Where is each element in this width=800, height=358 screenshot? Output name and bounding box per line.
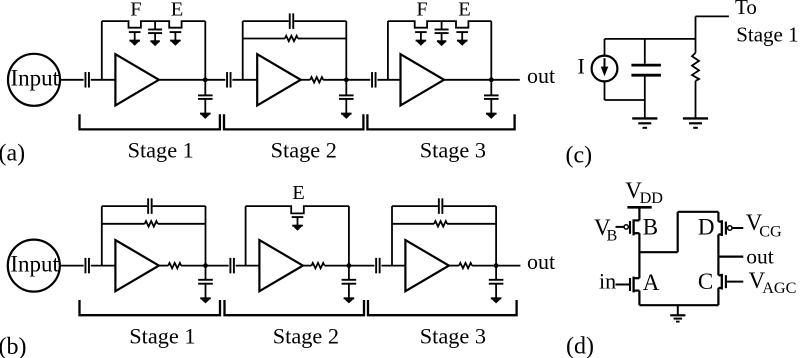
wire riser to Q_D (d) — [678, 211, 719, 213]
wire Q_B to Q_A (d) — [638, 233, 640, 278]
transistor Q_C NMOS (d) — [718, 274, 743, 290]
capacitor input coupling C1 (b) — [85, 258, 89, 274]
node stage1 output (b) — [203, 263, 208, 268]
wire current source top stub (c) — [604, 39, 606, 56]
capacitor shunt stage2 (b) with ground arrow — [342, 266, 357, 304]
wire feedback top stage3 (a) with F/E notches — [388, 21, 491, 28]
wire resistor bottom lead (c) — [695, 81, 697, 118]
capacitor shunt stage2 (a) with ground arrow — [339, 80, 354, 119]
capacitor feedback stage2 (a) — [290, 13, 294, 29]
resistor series output stage3 (b) — [459, 263, 472, 268]
wire amp2 out to R (a) — [301, 79, 311, 81]
capacitor shunt stage1 (b) with ground arrow — [198, 266, 213, 304]
MOS varactor E stage2 (b) — [292, 217, 304, 231]
wire VDD to Q_B (d) — [638, 207, 640, 220]
wire bottom link (c) — [605, 99, 645, 101]
resistor feedback stage2 (a) — [285, 36, 298, 41]
resistor series output stage1 (b) — [168, 263, 181, 268]
wire feedback left vertical stage1 (a) — [101, 21, 103, 80]
wire input to C1 (b) — [60, 265, 84, 267]
wire feedback top stage3 (b) right part — [443, 205, 496, 207]
svg-text:E: E — [171, 0, 184, 21]
node stage3 output (b) — [494, 263, 499, 268]
wire feedback mid stage1 (b) right part — [158, 223, 206, 225]
wire feedback left vertical stage2 (a) — [242, 21, 244, 80]
wire feedback right vertical stage2 (a) — [345, 21, 347, 80]
svg-text:(a): (a) — [0, 140, 25, 166]
bracket Stage 1 (b) — [80, 300, 221, 315]
ground below resistor (c) — [683, 118, 708, 127]
wire feedback right vertical stage3 (a) — [490, 21, 492, 80]
bracket Stage 3 (a) — [367, 114, 514, 129]
capacitor input coupling C1 (a) — [85, 72, 89, 88]
wire feedback mid stage2 (a) left part — [243, 38, 285, 40]
capacitor shunt stage3 (a) with ground arrow — [484, 80, 499, 119]
svg-text:E: E — [458, 0, 471, 21]
wire feedback top stage1 (b) right part — [153, 205, 206, 207]
current source arrow (c) — [601, 58, 609, 76]
svg-text:E: E — [292, 182, 305, 204]
wire current source bottom stub (c) — [604, 81, 606, 100]
svg-text:A: A — [643, 270, 660, 295]
svg-text:C: C — [698, 269, 713, 294]
capacitor feedback stage1 (b) — [148, 198, 152, 214]
wire node to riser (d) — [639, 251, 677, 253]
svg-text:out: out — [527, 63, 555, 88]
wire Q_D to Q_C (d) — [717, 234, 719, 275]
capacitor shunt stage3 (b) with ground arrow — [489, 266, 504, 304]
svg-text:VB: VB — [594, 215, 617, 244]
bracket Stage 1 (a) — [80, 114, 220, 129]
wire riser to stage1 (c) — [695, 16, 697, 39]
wire bottom rail (d) — [639, 304, 718, 306]
current source I circle (c) — [592, 56, 618, 82]
wire feedback top stage1 (b) left part — [102, 205, 147, 207]
wire feedback left vertical stage1 (b) — [101, 206, 103, 266]
wire feedback top stage2 (a) left part — [243, 20, 289, 22]
bracket Stage 2 (b) — [225, 300, 365, 315]
svg-text:VDD: VDD — [625, 178, 663, 207]
wire feedback left vertical stage3 (b) — [391, 206, 393, 266]
wire riser vertical (d) — [677, 212, 679, 252]
wire top rail (c) — [605, 38, 696, 40]
node out (d) — [718, 256, 743, 258]
svg-text:VCG: VCG — [746, 210, 782, 241]
svg-text:Stage 2: Stage 2 — [273, 324, 339, 349]
op-amp A1 stage1 (a) — [115, 54, 158, 105]
svg-text:F: F — [416, 0, 427, 21]
MOS varactor F stage3 (a) — [415, 32, 427, 46]
MOS varactor F stage1 (a) — [129, 32, 141, 46]
capacitor coupling C2 (a) — [227, 72, 231, 88]
bracket Stage 3 (b) — [368, 300, 517, 315]
svg-text:To: To — [735, 0, 757, 19]
input source circle (a) — [8, 54, 60, 106]
wire feedback right vertical stage1 (b) — [205, 206, 207, 266]
svg-text:Stage 1: Stage 1 — [736, 23, 798, 47]
node stage1 output (a) — [203, 77, 208, 82]
svg-text:Input: Input — [11, 66, 60, 91]
wire C2 to amp2 (a) — [232, 79, 257, 81]
svg-text:Stage 3: Stage 3 — [420, 324, 486, 349]
wire R to C3 (b) — [325, 265, 375, 267]
wire feedback mid stage2 (a) right part — [298, 38, 346, 40]
wire C3 to amp3 (a) — [377, 79, 400, 81]
capacitor load C (c) — [631, 65, 661, 75]
wire feedback right vertical stage1 (a) — [204, 21, 206, 80]
op-amp A3 stage3 (a) — [401, 54, 445, 105]
wire amp2 out to R (b) — [303, 265, 312, 267]
capacitor feedback stage3 (b) — [439, 198, 443, 214]
wire to stage1 (c) — [696, 15, 729, 17]
svg-text:I: I — [578, 54, 585, 79]
wire R to C3 (a) — [323, 79, 370, 81]
op-amp A2 stage2 (a) — [257, 54, 301, 105]
wire input to C1 (a) — [60, 79, 83, 81]
wire C1 to amp1 (b) — [91, 265, 116, 267]
transistor Q_B PMOS (d) — [616, 219, 640, 235]
svg-text:F: F — [130, 0, 141, 21]
resistor feedback stage1 (b) — [145, 221, 158, 226]
op-amp A2 stage2 (b) — [259, 240, 303, 291]
wire R to C2 (b) — [181, 265, 228, 267]
svg-text:(b): (b) — [0, 334, 26, 358]
ground below capacitor (c) — [632, 118, 657, 127]
wire Q_D drain lead (d) — [717, 212, 719, 222]
bracket Stage 2 (a) — [224, 114, 363, 129]
resistor feedback stage3 (b) — [434, 221, 447, 226]
wire feedback top stage2 (b) with E notch — [246, 206, 349, 213]
svg-text:out: out — [527, 249, 555, 274]
resistor load R (c) — [692, 53, 699, 81]
resistor series output stage2 (a) — [310, 77, 323, 82]
node stage3 output (a) — [489, 77, 494, 82]
svg-text:out: out — [746, 245, 774, 269]
MOS varactor E stage3 (a) — [456, 32, 468, 46]
wire feedback mid stage3 (b) right part — [447, 223, 496, 225]
power rail V_DD bar (d) — [627, 206, 651, 209]
wire feedback top stage1 (a) with F/E notches — [102, 21, 206, 28]
wire feedback top stage2 (a) right part — [294, 20, 346, 22]
capacitor coupling C3 (b) — [376, 258, 380, 274]
wire feedback top stage3 (b) left part — [392, 205, 438, 207]
svg-text:Stage 1: Stage 1 — [129, 324, 195, 349]
svg-text:D: D — [698, 215, 715, 240]
wire feedback mid stage1 (b) left part — [102, 223, 145, 225]
input source circle (b) — [8, 240, 60, 292]
node stage2 output (a) — [344, 77, 349, 82]
wire resistor top lead (c) — [695, 39, 697, 53]
wire Q_A source down (d) — [638, 291, 640, 306]
wire feedback left vertical stage3 (a) — [387, 21, 389, 80]
wire C1 to amp1 (a) — [91, 79, 116, 81]
capacitor mid feedback stage1 (a) — [148, 21, 162, 46]
svg-text:Stage 3: Stage 3 — [420, 137, 486, 162]
svg-text:Input: Input — [10, 252, 59, 277]
MOS varactor E stage1 (a) — [170, 32, 182, 46]
capacitor shunt stage1 (a) with ground arrow — [198, 80, 213, 119]
wire C3 to amp3 (b) — [382, 265, 406, 267]
capacitor coupling C3 (a) — [372, 72, 376, 88]
transistor Q_A NMOS (d) — [616, 277, 640, 293]
node stage2 output (b) — [347, 263, 352, 268]
wire amp3 out to R (b) — [449, 265, 459, 267]
op-amp A3 stage3 (b) — [405, 240, 449, 291]
wire amp3 to out (a) — [444, 79, 520, 81]
wire feedback right vertical stage3 (b) — [495, 206, 497, 266]
capacitor mid feedback stage3 (a) — [435, 21, 449, 46]
wire C2 to amp2 (b) — [236, 265, 260, 267]
transistor Q_D PMOS (d) — [718, 220, 743, 236]
wire Q_C source down (d) — [717, 288, 719, 305]
wire feedback mid stage3 (b) left part — [392, 223, 434, 225]
svg-text:(c): (c) — [566, 143, 593, 169]
svg-text:(d): (d) — [566, 334, 594, 358]
wire amp1 out to R (b) — [159, 265, 168, 267]
svg-text:VAGC: VAGC — [749, 268, 797, 297]
wire feedback left vertical stage2 (b) — [245, 206, 247, 266]
ground (d) — [670, 305, 685, 321]
wire cap branch lower (c) — [644, 77, 646, 118]
wire feedback right vertical stage2 (b) — [348, 206, 350, 266]
wire amp1 out to C2 (a) — [159, 79, 225, 81]
svg-text:in: in — [599, 269, 616, 294]
op-amp A1 stage1 (b) — [115, 240, 158, 291]
resistor series output stage2 (b) — [312, 263, 325, 268]
wire cap branch upper (c) — [644, 39, 646, 64]
wire R to out (b) — [472, 265, 520, 267]
svg-text:Stage 2: Stage 2 — [271, 137, 337, 162]
svg-text:Stage 1: Stage 1 — [128, 137, 194, 162]
capacitor coupling C2 (b) — [230, 258, 234, 274]
svg-text:B: B — [643, 214, 658, 239]
